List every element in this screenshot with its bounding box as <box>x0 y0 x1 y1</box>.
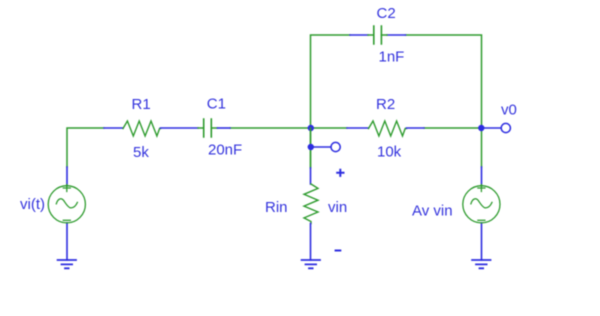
wire R2 to right node <box>424 127 482 129</box>
svg-text:10k: 10k <box>377 144 402 161</box>
source Av vin leads <box>481 167 483 260</box>
ground (right) <box>472 260 490 268</box>
svg-text:R1: R1 <box>132 96 151 113</box>
capacitor C2 <box>350 34 406 36</box>
wire top-left vertical and horizontal to C2 <box>311 35 351 167</box>
capacitor C1 <box>198 127 218 129</box>
ground (left) <box>58 260 76 268</box>
vin tap junction dot <box>308 144 314 150</box>
right node junction dot <box>478 125 484 131</box>
resistor Rin (vertical) <box>310 168 312 184</box>
wire node to vin tap dot <box>310 128 312 168</box>
terminal v0 (open circle) <box>501 123 510 132</box>
wire v0 tap <box>484 127 501 129</box>
svg-text:v0: v0 <box>501 102 517 119</box>
source vi(t) leads <box>66 167 68 260</box>
svg-text:C2: C2 <box>377 5 396 22</box>
resistor R2 <box>347 127 369 129</box>
source vi(t) <box>48 186 85 223</box>
svg-text:vi(t): vi(t) <box>20 196 45 213</box>
resistor R1 <box>104 127 123 129</box>
node A junction dot (main/middle) <box>308 125 314 131</box>
svg-text:5k: 5k <box>133 144 149 161</box>
plus mark vin <box>337 170 343 176</box>
svg-text:1nF: 1nF <box>379 49 405 66</box>
wire left vertical and to R1 <box>67 128 104 167</box>
svg-text:R2: R2 <box>376 96 395 113</box>
svg-text:Rin: Rin <box>265 199 288 216</box>
wire top-right from C2 down right vertical <box>406 35 482 167</box>
svg-text:20nF: 20nF <box>208 142 242 159</box>
ground (middle) <box>302 260 320 268</box>
svg-text:C1: C1 <box>207 96 226 113</box>
minus mark vin <box>336 250 341 252</box>
wire C1 to node to R2 <box>230 127 347 129</box>
source Av vin (dependent) <box>463 186 500 223</box>
svg-text:vin: vin <box>328 199 347 216</box>
wire vin tap <box>314 146 331 148</box>
terminal vin (open circle) <box>331 142 340 151</box>
svg-text:Av vin: Av vin <box>412 203 453 220</box>
